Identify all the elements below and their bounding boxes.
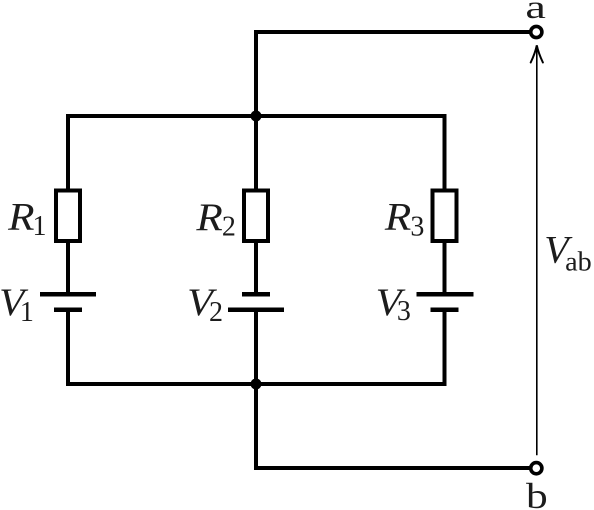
label R2 bbox=[195, 196, 236, 243]
wire: branch1 upper bbox=[66, 114, 70, 191]
node junction dot top bbox=[251, 111, 262, 122]
Vab arrowhead bbox=[531, 45, 543, 62]
wire: branch2 mid bbox=[254, 241, 258, 294]
wire: branch2 upper bbox=[254, 114, 258, 191]
terminal b bbox=[531, 463, 542, 474]
battery V2 bbox=[228, 294, 284, 310]
wire bottom: junction to terminal b bbox=[256, 382, 531, 468]
wire: branch1 mid bbox=[66, 241, 70, 294]
wire: branch3 lower bbox=[443, 310, 447, 386]
wire: top junction bus bbox=[66, 114, 447, 118]
resistor R1 bbox=[56, 191, 80, 242]
svg-text:1: 1 bbox=[20, 297, 34, 328]
svg-text:2: 2 bbox=[222, 212, 236, 243]
wire: branch2 lower bbox=[254, 310, 258, 386]
svg-text:R: R bbox=[195, 196, 223, 239]
wire: branch1 lower bbox=[66, 310, 70, 386]
label V1 bbox=[0, 281, 34, 328]
wire: branch3 upper bbox=[443, 114, 447, 191]
svg-text:ab: ab bbox=[565, 246, 592, 276]
svg-text:1: 1 bbox=[33, 211, 47, 242]
battery V3 bbox=[417, 294, 474, 310]
svg-text:3: 3 bbox=[397, 296, 411, 327]
svg-text:3: 3 bbox=[410, 212, 424, 243]
label R1 bbox=[7, 196, 47, 242]
label V3 bbox=[376, 281, 411, 327]
resistor R3 bbox=[433, 191, 457, 242]
label R3 bbox=[384, 196, 425, 243]
node junction dot bottom bbox=[251, 379, 262, 390]
wire top: junction to terminal a bbox=[256, 32, 531, 118]
label V2 bbox=[187, 281, 223, 328]
svg-text:2: 2 bbox=[209, 297, 223, 328]
svg-text:R: R bbox=[384, 196, 412, 239]
terminal a bbox=[531, 26, 542, 37]
svg-text:b: b bbox=[526, 476, 548, 510]
wire: branch3 mid bbox=[443, 241, 447, 294]
svg-text:a: a bbox=[525, 0, 546, 26]
svg-text:R: R bbox=[7, 196, 35, 239]
label Vab bbox=[544, 229, 591, 277]
wire: Vab arrow shaft bbox=[536, 47, 538, 455]
resistor R2 bbox=[244, 191, 268, 242]
wire: bottom junction bus bbox=[66, 382, 447, 386]
battery V1 bbox=[40, 294, 96, 310]
